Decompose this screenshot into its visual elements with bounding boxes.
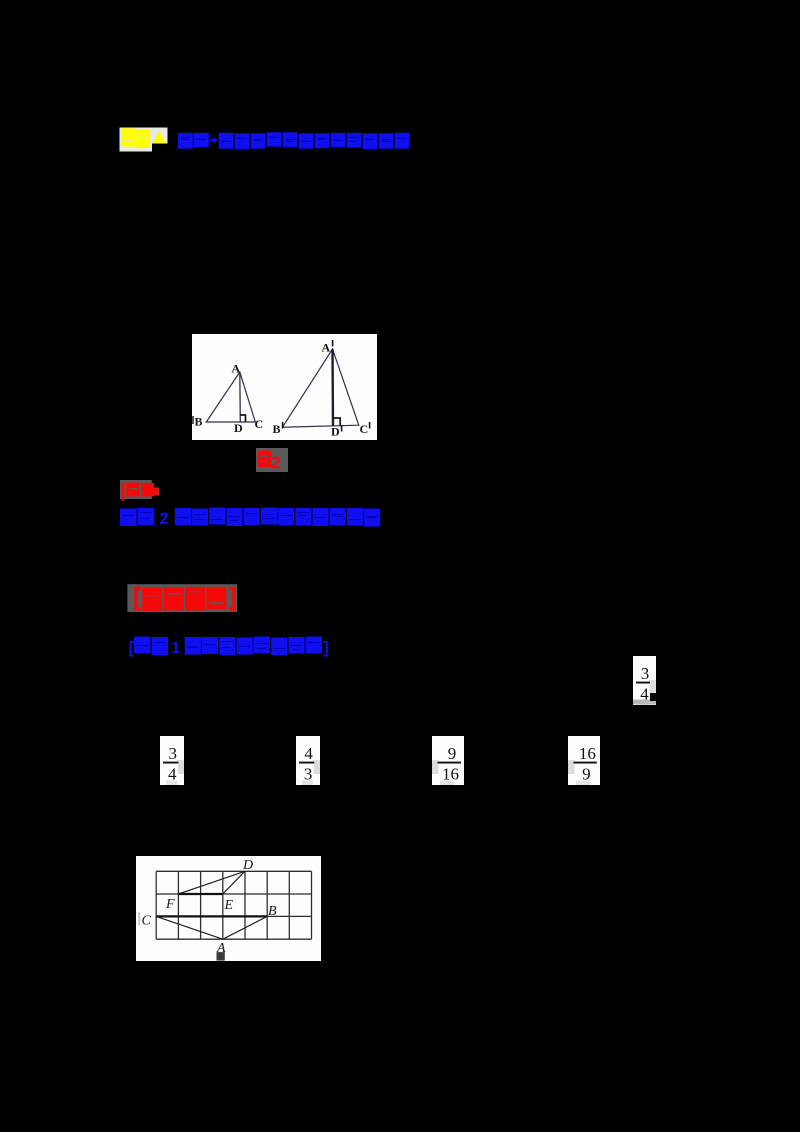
grey box for red note bbox=[120, 480, 152, 499]
svg-text:3: 3 bbox=[168, 744, 177, 763]
figure 2 caption box bbox=[256, 448, 288, 472]
svg-text:A: A bbox=[322, 341, 331, 355]
triangle DEF bbox=[178, 871, 244, 894]
svg-text:16: 16 bbox=[579, 744, 596, 763]
svg-text:C: C bbox=[360, 422, 369, 436]
altitude A'D' bold bbox=[331, 349, 334, 426]
svg-text:9: 9 bbox=[582, 765, 591, 784]
svg-text:1: 1 bbox=[171, 640, 180, 657]
light tick left of C bbox=[138, 912, 140, 925]
svg-text:9: 9 bbox=[448, 744, 457, 763]
svg-text:4: 4 bbox=[304, 744, 313, 763]
grey smudge under A bbox=[216, 952, 224, 961]
blue heading text bbox=[178, 133, 193, 149]
triangle ABC bbox=[206, 372, 255, 422]
svg-text:E: E bbox=[223, 898, 233, 913]
grid lines bbox=[155, 871, 157, 939]
edge tick bbox=[192, 416, 194, 424]
red section header text 【...】 bbox=[136, 588, 141, 609]
svg-text:2: 2 bbox=[272, 453, 281, 472]
svg-text:D: D bbox=[331, 425, 340, 439]
fraction 3/4 bbox=[633, 656, 656, 705]
red note text bbox=[121, 483, 124, 501]
svg-text:2: 2 bbox=[159, 510, 168, 528]
svg-text:C: C bbox=[255, 417, 264, 431]
right angle mark at D' bbox=[333, 418, 340, 426]
fraction 3/4 bbox=[160, 736, 184, 785]
right angle mark at D bbox=[240, 415, 245, 422]
triangle A'B'C' bbox=[283, 349, 359, 427]
svg-text:D: D bbox=[242, 858, 253, 873]
svg-text:B: B bbox=[268, 904, 277, 919]
heading highlight box bbox=[120, 128, 153, 152]
svg-text:16: 16 bbox=[442, 764, 459, 783]
svg-text:[: [ bbox=[129, 638, 135, 657]
caption text 图2 bbox=[258, 451, 272, 468]
svg-text:B: B bbox=[273, 422, 281, 436]
svg-text:F: F bbox=[165, 897, 175, 912]
yellow label chars bbox=[121, 128, 135, 146]
fraction 16/9 bbox=[568, 736, 600, 785]
fraction 4/3 bbox=[296, 736, 320, 785]
svg-text:4: 4 bbox=[168, 764, 177, 783]
red section header box bbox=[127, 584, 237, 612]
fraction 9/16 bbox=[432, 736, 464, 785]
svg-text:C: C bbox=[141, 913, 151, 928]
figure: grid with triangles ABC / DEF bbox=[136, 856, 321, 961]
blue subheading 2 bbox=[120, 509, 137, 527]
figure 1: similar triangles image bbox=[192, 334, 377, 440]
svg-text:]: ] bbox=[323, 638, 329, 657]
svg-text:D: D bbox=[234, 421, 243, 435]
triangle ABC bbox=[156, 916, 223, 939]
svg-text:B: B bbox=[195, 415, 203, 429]
svg-text:A: A bbox=[232, 362, 241, 376]
altitude AD bbox=[239, 372, 242, 422]
svg-text:3: 3 bbox=[304, 764, 313, 783]
yellow triangle icon bbox=[152, 131, 166, 144]
svg-text:3: 3 bbox=[640, 664, 649, 683]
